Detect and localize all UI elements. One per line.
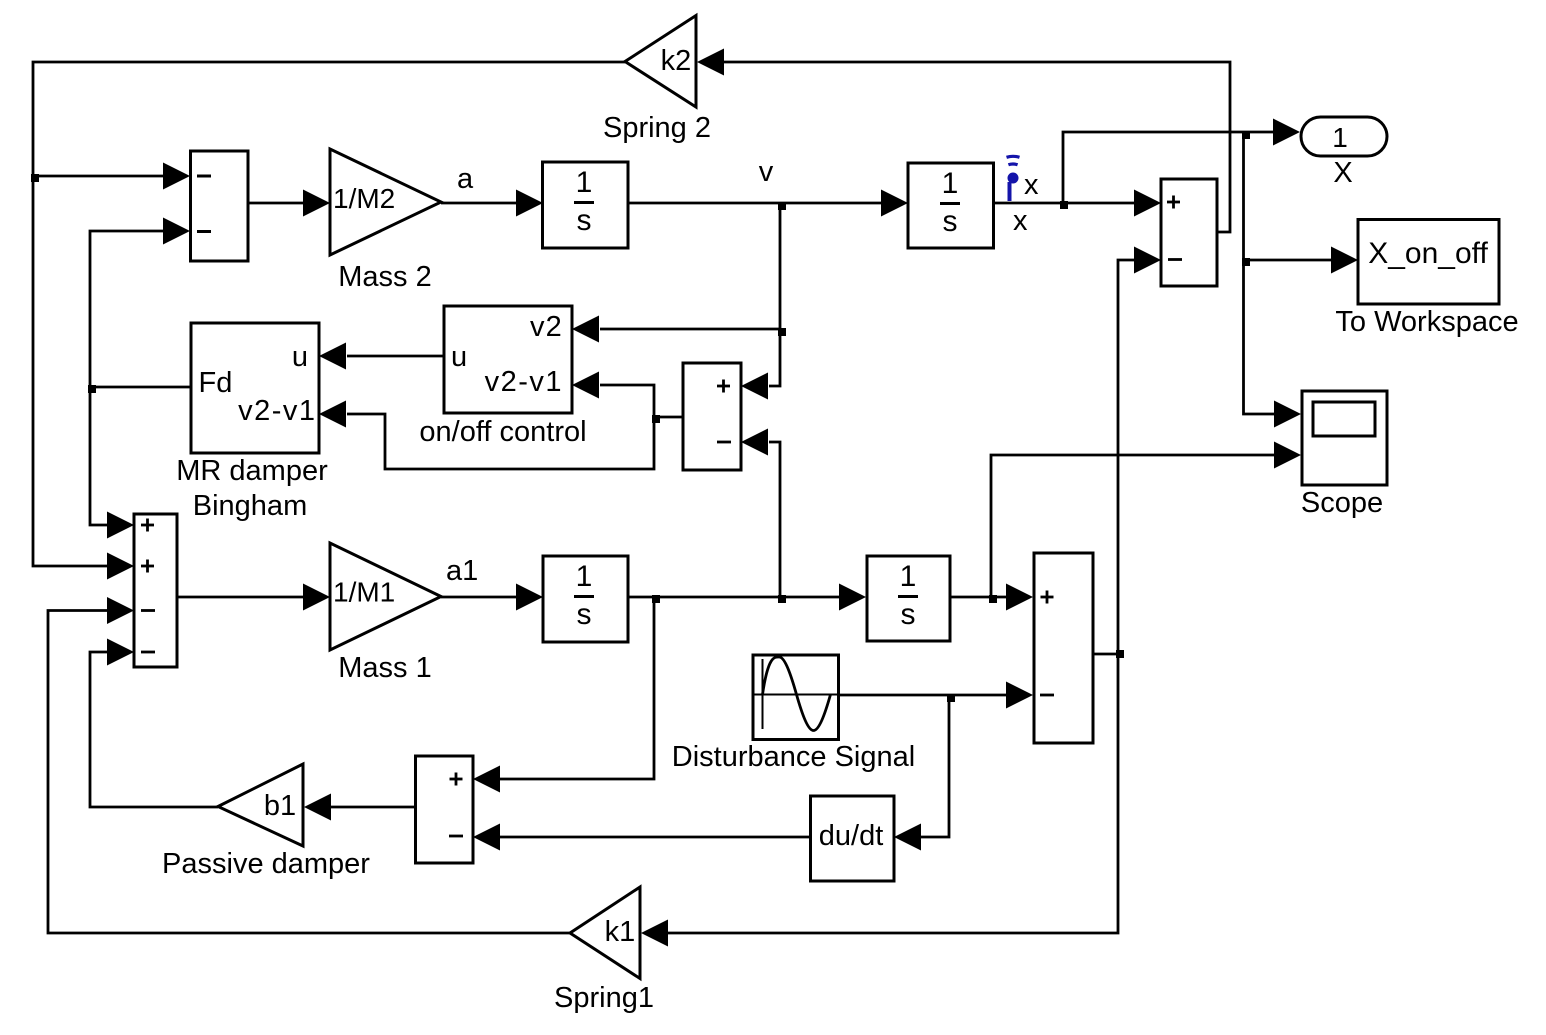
arrow into integrator 2: [881, 190, 908, 217]
wire v1: integrator 3 to integrator 4: [628, 596, 840, 599]
arrow into passive damper sum - input: [473, 824, 500, 851]
junction disturbance branch: [947, 694, 955, 702]
wire mid sum output down-left into MR damper v2-v1 input: [347, 414, 654, 469]
on/off control block: [419, 306, 586, 448]
wire branch from k2 line into top sum2 input 1: [33, 175, 166, 178]
svg-text:a: a: [457, 163, 474, 195]
arrow into gain b1: [304, 794, 331, 821]
junction x branch up: [1060, 201, 1068, 209]
svg-text:s: s: [577, 204, 592, 237]
sum block sum2 (top left, two minus): [191, 151, 249, 261]
junction x1 branch up: [989, 595, 997, 603]
svg-text:u: u: [451, 341, 467, 373]
arrow into Add input 4: [107, 639, 134, 666]
wire k1 output to Add input 3: [48, 611, 570, 934]
svg-text:To Workspace: To Workspace: [1335, 306, 1518, 338]
arrow into gain 1/M2: [303, 190, 330, 217]
wire x1 up to Scope input 2: [991, 455, 1276, 597]
arrow into du/dt input: [894, 824, 921, 851]
svg-text:1: 1: [900, 560, 917, 593]
wire Fd down into Add input 1: [90, 387, 110, 525]
integrator 4 (1/s): [867, 556, 950, 641]
wire passive damper sum output into gain b1: [330, 806, 416, 809]
svg-text:1: 1: [576, 560, 593, 593]
gain 1/M1 (Mass 1): [330, 543, 441, 684]
svg-text:X_on_off: X_on_off: [1368, 237, 1488, 270]
To Workspace block X_on_off: [1335, 220, 1518, 339]
arrow into MR damper u input: [319, 343, 346, 370]
junction mid sum output: [652, 415, 660, 423]
wire x: integrator 2 to top sum + input: [993, 202, 1137, 205]
svg-text:X: X: [1333, 157, 1352, 189]
wire Add output to gain 1/M1: [177, 596, 304, 599]
junction v branch down: [778, 202, 786, 210]
wire disturbance signal into big sum - input: [838, 694, 1008, 697]
arrow into sum2 input 1: [163, 163, 190, 190]
svg-text:MR damper: MR damper: [176, 455, 328, 487]
arrow into mid sum - input: [741, 429, 768, 456]
arrow into on/off control v2 input: [572, 316, 599, 343]
svg-text:v2-v1: v2-v1: [485, 366, 563, 398]
Disturbance Signal (sine source): [672, 655, 915, 773]
arrow into top sum - input: [1134, 247, 1161, 274]
svg-text:du/dt: du/dt: [819, 820, 884, 852]
wire x branch up to outport line: [1063, 132, 1274, 203]
svg-text:v2-v1: v2-v1: [238, 395, 316, 427]
arrow into sum2 input 2: [163, 218, 190, 245]
wire b1 output to Add input 4: [90, 652, 218, 807]
big sum block (+ -): [1034, 553, 1093, 743]
wire v1 up into mid sum - input: [769, 442, 780, 597]
arrow into passive damper sum + input: [473, 766, 500, 793]
mid sum block (+ -): [683, 363, 741, 470]
svg-text:v: v: [759, 156, 774, 188]
junction on Fd line: [88, 385, 96, 393]
svg-text:v2: v2: [530, 311, 563, 343]
gain b1 (Passive damper): [162, 764, 370, 880]
arrow into MR damper v2-v1 input: [319, 401, 346, 428]
arrow into on/off control v2-v1 input: [572, 372, 599, 399]
arrow into Scope input 2: [1274, 442, 1301, 469]
svg-text:s: s: [901, 598, 916, 631]
arrow into Scope input 1: [1274, 401, 1301, 428]
arrow into integrator 1: [516, 190, 543, 217]
wire big sum output down into k1: [668, 654, 1118, 933]
svg-text:a1: a1: [446, 555, 478, 587]
svg-text:Mass 1: Mass 1: [338, 652, 431, 684]
integrator 3 (1/s): [543, 556, 628, 642]
wire on/off control u output into MR damper u input: [347, 355, 444, 358]
wire a1: 1/M1 to integrator 3: [441, 596, 518, 599]
arrow into gain k2: [697, 49, 724, 76]
wire mid sum output up into on/off control v2-v1 input: [600, 385, 654, 417]
wire x1: integrator 4 into big sum + input: [950, 596, 1008, 599]
svg-text:on/off control: on/off control: [419, 416, 586, 448]
svg-text:s: s: [577, 598, 592, 631]
gain 1/M2 (Mass 2): [330, 149, 441, 293]
gain k2 (Spring 2): [603, 16, 711, 145]
MR damper Bingham block: [176, 323, 328, 522]
wire Fd up into sum2 input 2: [90, 231, 166, 387]
wire v branch into on/off control v2 input: [600, 328, 780, 331]
arrow into big sum - input: [1006, 682, 1033, 709]
Scope block: [1301, 391, 1387, 519]
junction v2 branch: [778, 328, 786, 336]
wire x branch into To Workspace: [1244, 259, 1335, 262]
svg-text:x: x: [1024, 169, 1039, 201]
wire MR damper Fd output to x=90 trunk: [90, 386, 191, 389]
test point icon (blue): [1007, 156, 1020, 201]
wire a: 1/M2 to integrator 1: [441, 202, 518, 205]
svg-text:Scope: Scope: [1301, 487, 1383, 519]
junction v1 branch down: [652, 595, 660, 603]
arrow into integrator 3: [516, 584, 543, 611]
arrow into Add input 2: [107, 553, 134, 580]
svg-text:u: u: [292, 341, 308, 373]
arrow into big sum + input: [1006, 584, 1033, 611]
wire v1 branch down into passive damper sum + input: [499, 597, 654, 779]
junction outport line branch down: [1242, 131, 1250, 139]
svg-text:1/M1: 1/M1: [333, 577, 395, 608]
passive damper sum block (+ -): [416, 756, 474, 863]
wire v: integrator 1 to integrator 2: [628, 202, 884, 205]
arrow into integrator 4: [839, 584, 866, 611]
arrow into Add input 1: [107, 512, 134, 539]
arrow into top sum + input: [1134, 190, 1161, 217]
du/dt (derivative) block: [811, 796, 895, 881]
junction on k2 feedback at sum2 branch: [31, 174, 39, 182]
svg-text:Spring 2: Spring 2: [603, 112, 711, 144]
outport 1 (X): [1301, 117, 1387, 189]
integrator 1 (1/s): [543, 162, 629, 248]
svg-text:1: 1: [576, 166, 593, 199]
svg-text:1: 1: [942, 167, 959, 200]
integrator 2 (1/s): [908, 163, 994, 248]
wire big sum output stub: [1093, 653, 1118, 656]
arrow into outport 1: [1273, 119, 1300, 146]
svg-text:Passive damper: Passive damper: [162, 848, 370, 880]
svg-text:x: x: [1013, 205, 1028, 237]
wire Spring2 output feedback: k2 tip left, down, into Add input 2: [33, 62, 625, 566]
wire disturbance branch down into du/dt: [920, 695, 949, 837]
wire top sum output up to k2 input: [724, 62, 1230, 232]
junction big sum output: [1116, 650, 1124, 658]
gain k1 (Spring1): [554, 887, 654, 1014]
wire big sum output up to top sum - input: [1118, 260, 1137, 654]
wire x drop to To Workspace / Scope: [1244, 132, 1277, 414]
svg-text:1: 1: [1332, 122, 1348, 153]
junction v1 branch up: [778, 595, 786, 603]
svg-text:k1: k1: [605, 916, 636, 948]
arrow into gain 1/M1: [303, 584, 330, 611]
junction To Workspace branch: [1242, 258, 1250, 266]
svg-text:Spring1: Spring1: [554, 982, 654, 1014]
wire v branch down into mid sum + input: [769, 203, 780, 386]
svg-text:Bingham: Bingham: [193, 490, 307, 522]
svg-text:Fd: Fd: [199, 367, 233, 399]
svg-text:s: s: [943, 205, 958, 238]
wire mid sum output stub to junction: [654, 416, 683, 419]
wire du/dt output into passive damper sum - input: [499, 836, 811, 839]
wire sum2 output to gain 1/M2: [248, 202, 305, 205]
svg-text:Mass 2: Mass 2: [338, 261, 431, 293]
arrow into To Workspace: [1331, 247, 1358, 274]
svg-text:1/M2: 1/M2: [333, 183, 395, 214]
arrow into gain k1: [641, 920, 668, 947]
svg-text:Disturbance Signal: Disturbance Signal: [672, 741, 915, 773]
svg-text:b1: b1: [264, 790, 296, 822]
svg-text:k2: k2: [661, 45, 692, 77]
Add block (+ + - -): [134, 514, 177, 667]
top sum block (+ -): [1161, 179, 1217, 286]
arrow into Add input 3: [107, 597, 134, 624]
arrow into mid sum + input: [741, 373, 768, 400]
